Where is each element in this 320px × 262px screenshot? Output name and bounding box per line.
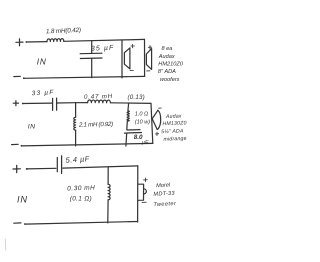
svg-text:5.4 µF: 5.4 µF (65, 154, 90, 165)
svg-text:IN: IN (37, 58, 47, 67)
svg-text:1.0 Ω: 1.0 Ω (135, 112, 148, 118)
svg-text:33 µF: 33 µF (32, 89, 55, 97)
svg-text:(10 w): (10 w) (135, 120, 150, 126)
svg-text:Audax: Audax (158, 54, 175, 60)
svg-text:0.30 mH: 0.30 mH (67, 185, 95, 193)
svg-text:woofers: woofers (160, 77, 180, 83)
svg-text:2.1 mH (0.92): 2.1 mH (0.92) (78, 121, 113, 129)
svg-text:IN: IN (28, 124, 36, 131)
svg-text:HM130Z0: HM130Z0 (162, 120, 186, 127)
svg-text:MDT-33: MDT-33 (153, 191, 175, 198)
svg-text:5¼" ADA: 5¼" ADA (161, 128, 184, 135)
svg-text:Audax: Audax (165, 113, 182, 120)
svg-text:Tweeter: Tweeter (153, 201, 177, 208)
svg-text:(0.13): (0.13) (128, 94, 145, 101)
svg-text:(0.1 Ω): (0.1 Ω) (70, 195, 92, 202)
svg-text:HM210Z0: HM210Z0 (158, 61, 183, 67)
svg-text:IN: IN (17, 195, 28, 205)
svg-text:0.47 mH: 0.47 mH (84, 93, 113, 101)
svg-text:35 µF: 35 µF (91, 45, 115, 53)
svg-text:Morel: Morel (156, 182, 171, 189)
svg-text:µF: µF (142, 140, 149, 146)
svg-text:8" ADA: 8" ADA (158, 69, 176, 75)
svg-text:8 ea: 8 ea (162, 46, 173, 52)
svg-text:1.8 mH(0.42): 1.8 mH(0.42) (46, 27, 81, 36)
svg-text:midrange: midrange (163, 136, 186, 143)
